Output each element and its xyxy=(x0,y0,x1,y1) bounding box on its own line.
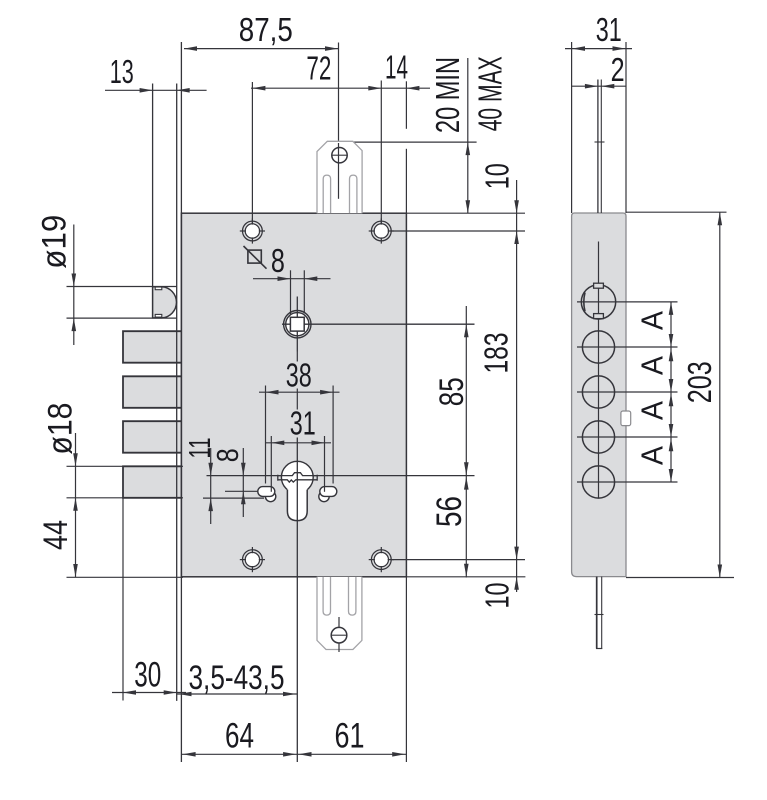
side hole centerline 1 xyxy=(577,301,678,303)
side hole centerline 3 xyxy=(577,391,678,393)
svg-text:61: 61 xyxy=(335,716,365,755)
body top extension line xyxy=(406,212,525,214)
20 MIN dim line xyxy=(405,81,407,129)
fixing screw hole right xyxy=(319,491,329,501)
latch bottom extension line xyxy=(67,317,177,319)
dimension 44 xyxy=(73,564,78,577)
31 extension left over screw slot xyxy=(270,487,272,492)
bolt4 top extension line xyxy=(67,465,184,467)
svg-text:183: 183 xyxy=(478,333,515,374)
side hole circle 3 xyxy=(582,376,614,408)
cylinder profile end cap right xyxy=(316,475,318,481)
dimension 3,5-43,5 line xyxy=(177,693,297,695)
38 extension right xyxy=(332,386,334,484)
extension line right top hole xyxy=(380,81,382,225)
bolt left edge extension down xyxy=(122,498,124,701)
extension line left top hole xyxy=(251,82,253,225)
dimension 31 line xyxy=(265,442,331,444)
side hole circle 4 xyxy=(582,421,614,453)
svg-text:85: 85 xyxy=(433,377,471,406)
latch anti-friction pin bottom xyxy=(155,314,162,317)
side hole centerline 5 xyxy=(577,481,678,483)
mounting hole bottom-right ticks xyxy=(380,547,382,553)
screw slot center extension xyxy=(225,490,259,492)
svg-text:A: A xyxy=(634,401,669,420)
svg-text:20 MIN: 20 MIN xyxy=(429,57,466,133)
svg-text:40 MAX: 40 MAX xyxy=(472,56,509,131)
screw lobe center extension xyxy=(203,497,264,499)
dimension 38 line xyxy=(259,391,340,393)
euro cylinder keyway xyxy=(287,484,307,521)
side hole centerline 4 xyxy=(577,436,678,438)
svg-text:56: 56 xyxy=(430,496,469,527)
bottom rod lines xyxy=(596,577,598,649)
mounting hole top-right outer circle xyxy=(371,221,391,241)
dimension 87,5 line xyxy=(184,48,339,50)
dimension 183 / 10 chain line xyxy=(516,180,518,592)
square symbol xyxy=(248,250,261,263)
side view vertical centerline xyxy=(598,242,600,498)
faceplate outer surface line xyxy=(176,84,178,701)
svg-text:31: 31 xyxy=(290,405,316,442)
mounting hole top-left ticks xyxy=(251,218,253,224)
dimension 8 line (spindle) xyxy=(253,278,331,280)
svg-text:14: 14 xyxy=(385,49,408,86)
mounting hole top-right inner circle xyxy=(374,224,388,238)
top tab slot right xyxy=(350,175,357,213)
spindle dim extension left xyxy=(290,270,292,316)
spindle horizontal centerline xyxy=(282,323,475,325)
top tab hole xyxy=(332,148,347,163)
euro cylinder circle xyxy=(281,461,313,493)
top tab slot left xyxy=(323,175,330,213)
faceplate inner surface / body left edge extension line xyxy=(180,42,182,762)
mounting hole top-right ticks xyxy=(380,218,382,224)
spindle vertical centerline xyxy=(296,297,298,352)
mounting hole top-left inner circle xyxy=(245,224,259,238)
svg-text:87,5: 87,5 xyxy=(239,11,293,48)
svg-text:203: 203 xyxy=(681,361,718,403)
mounting hole bottom-right inner circle xyxy=(374,552,388,566)
dimension 13 line xyxy=(105,89,207,91)
deadbolt 4 xyxy=(123,466,184,498)
svg-text:2: 2 xyxy=(611,51,625,88)
svg-text:10: 10 xyxy=(478,163,515,189)
dimension 31 side line xyxy=(565,48,632,50)
cylinder horizontal centerline xyxy=(207,475,475,477)
side hole circle 5 xyxy=(582,466,614,498)
bottom rod end cap xyxy=(596,648,602,650)
top tab hole h-tick xyxy=(332,154,348,156)
svg-text:3,5-43,5: 3,5-43,5 xyxy=(189,659,285,697)
38 extension left xyxy=(265,386,267,484)
svg-text:30: 30 xyxy=(134,656,161,695)
faceplate front edge line xyxy=(152,84,154,287)
31 extension right xyxy=(324,436,326,492)
mounting hole bottom-right outer circle xyxy=(371,550,391,570)
side left edge extension up xyxy=(571,42,573,213)
deadbolt 3 xyxy=(123,421,184,453)
bolt4 bottom extension line xyxy=(67,497,184,499)
dimension 61 line xyxy=(297,753,406,755)
side view body xyxy=(572,213,626,577)
svg-text:ø18: ø18 xyxy=(42,403,80,455)
svg-text:10: 10 xyxy=(479,583,516,609)
dimension 2 line xyxy=(572,85,626,87)
svg-text:A: A xyxy=(634,311,669,330)
faceplate bottom edge / extension line xyxy=(67,576,184,578)
mounting hole top-left outer circle xyxy=(243,221,263,241)
dimension 11 line xyxy=(210,448,212,524)
lock body (front view) xyxy=(181,213,406,577)
square symbol slash xyxy=(244,246,267,269)
dimension ø19 (latch) xyxy=(73,225,75,346)
top tie-rod tab xyxy=(317,141,362,213)
side hole circle 1 (cylinder) xyxy=(581,285,615,319)
side body bottom extension line xyxy=(626,577,734,579)
dimension 72 / 14 line xyxy=(251,87,430,89)
bottom tab slot right xyxy=(349,577,356,615)
40 MAX dim line xyxy=(467,58,469,213)
bottom tab hole xyxy=(331,627,347,643)
side body right notch xyxy=(621,411,631,426)
svg-text:8: 8 xyxy=(271,242,285,279)
svg-text:ø19: ø19 xyxy=(35,215,73,269)
cylinder keyway bottom profile line xyxy=(278,480,317,482)
deadbolt 2 xyxy=(123,376,184,408)
bottom tie-rod tab xyxy=(317,577,362,650)
latch bolt (D-shape) xyxy=(153,287,177,318)
deadbolt 1 xyxy=(123,331,184,363)
body bottom extension line xyxy=(406,576,525,578)
body right edge extension upper xyxy=(405,149,407,213)
31 extension left xyxy=(270,436,272,492)
bottom tab hole h-tick xyxy=(332,634,347,636)
A spacing dimension line xyxy=(670,302,672,482)
top rod lines xyxy=(597,80,599,214)
fixing screw hole left xyxy=(265,491,275,501)
svg-text:44: 44 xyxy=(37,520,75,550)
svg-text:31: 31 xyxy=(596,11,622,48)
top tab centerline through hole xyxy=(338,143,340,199)
bottom tab slot left xyxy=(323,577,330,615)
side hole 1 notch bottom xyxy=(594,314,604,319)
tab centerline xyxy=(338,43,340,199)
cylinder keyway top profile line xyxy=(278,473,317,476)
svg-text:A: A xyxy=(634,356,669,375)
cylinder profile end cap left xyxy=(277,475,279,481)
tab top extension line xyxy=(353,141,477,143)
latch top extension line xyxy=(67,286,177,288)
spindle square hole xyxy=(290,317,304,331)
cylinder axis centerline xyxy=(296,438,298,763)
body right edge extension down xyxy=(405,577,407,762)
bottom holes centerline extension xyxy=(391,559,525,561)
mounting hole bottom-left ticks xyxy=(251,547,253,553)
vertical centerline segments xyxy=(296,352,298,362)
dimension 64 line xyxy=(181,753,297,755)
side hole 1 notch top xyxy=(594,283,604,288)
side hole centerline 2 xyxy=(577,346,678,348)
svg-text:8: 8 xyxy=(210,448,245,462)
spindle outer circle xyxy=(284,311,311,338)
side hole 1 left crescent xyxy=(584,293,585,312)
dimension 203 line xyxy=(719,212,721,577)
svg-text:64: 64 xyxy=(225,716,254,755)
dimension 85 / 56 line xyxy=(465,306,467,578)
svg-text:13: 13 xyxy=(110,53,134,90)
top holes centerline extension xyxy=(391,230,525,232)
side hole circle 2 xyxy=(582,331,614,363)
31 extension right over screw slot xyxy=(324,487,326,492)
mounting hole bottom-left inner circle xyxy=(245,552,259,566)
svg-text:38: 38 xyxy=(286,356,312,393)
svg-text:72: 72 xyxy=(306,49,331,86)
dimension 8 line (screw) xyxy=(242,448,244,517)
spindle inner circle xyxy=(286,313,309,336)
bottom rod tick xyxy=(595,614,604,616)
spindle dim extension right xyxy=(303,270,305,313)
side body top extension line xyxy=(626,211,727,213)
top rod tick xyxy=(595,141,605,143)
mounting hole bottom-left outer circle xyxy=(243,550,263,570)
svg-text:A: A xyxy=(634,446,669,465)
dimension 30 line xyxy=(112,692,186,694)
side right edge extension up xyxy=(625,42,627,213)
dimension ø18 (deadbolt) xyxy=(75,433,77,577)
latch anti-friction pin top xyxy=(155,287,162,290)
bottom tab hole v-tick xyxy=(338,617,340,652)
